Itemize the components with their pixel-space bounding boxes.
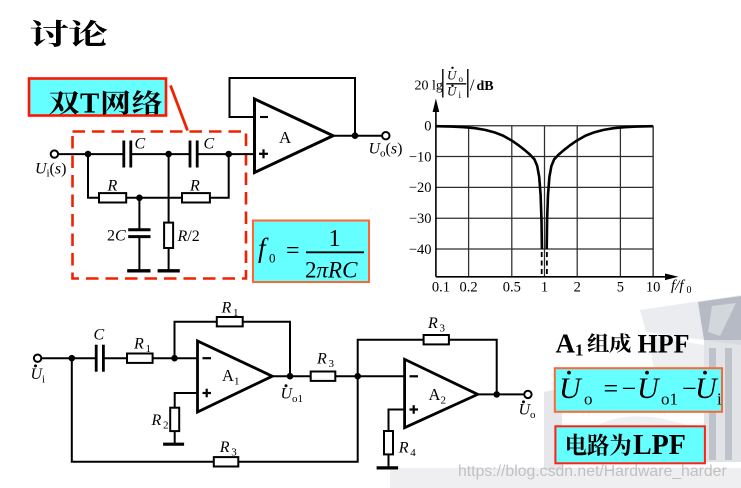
svg-text:0: 0 [269,251,276,266]
pin plus A2 [410,405,419,414]
op-amp A [255,99,334,173]
wire R2 to ground [174,431,176,443]
label Uo [519,400,537,421]
svg-text:o: o [530,409,536,421]
wire output A2 [478,393,525,395]
svg-text:R: R [133,336,144,353]
axis title 20lg|Uo/Ui|/dB [415,67,494,100]
svg-text:T: T [80,87,99,119]
node output A1 [287,373,294,380]
svg-text:R: R [398,440,409,457]
wire input [58,153,88,155]
svg-text:0.1: 0.1 [432,280,450,296]
svg-text:R: R [316,351,327,368]
resistor R2 [170,408,179,431]
svg-text:−10: −10 [409,149,432,165]
svg-text:(s): (s) [386,141,403,158]
wire junction down to 2C [138,198,140,230]
ground (R/2) [158,269,180,272]
bode grid [436,126,653,277]
node inverting input A1 [171,355,178,362]
svg-text:3: 3 [329,358,335,370]
label box LPF [555,426,705,463]
node junction A2 [354,373,361,380]
svg-text:2: 2 [441,395,447,407]
wire feedback A2 [358,340,424,377]
label Ui [31,364,46,385]
svg-text:R: R [221,300,232,317]
wire 2C to ground [138,237,140,270]
wire center down to R/2 [168,154,170,223]
terminal Uo(s) [382,132,389,139]
formula box f0 [253,221,369,283]
resistor R1 feedback [217,317,243,326]
svg-text:1: 1 [541,280,548,296]
wire mid rail [126,197,182,199]
resistor R (left) [99,193,126,202]
svg-text:−40: −40 [409,242,432,258]
node mid top [165,151,172,158]
capacitor C [96,345,103,372]
terminal Ui [34,355,41,362]
y tick labels [409,119,432,258]
svg-text:o1: o1 [661,390,678,409]
svg-text:1: 1 [234,376,240,388]
svg-text:U: U [695,372,719,405]
label R2 [151,412,169,432]
label A1 [222,366,240,388]
wire output [333,135,382,137]
wire top rail left [88,153,123,155]
svg-text:https://blog.csdn.net/Hardware: https://blog.csdn.net/Hardware_harder [458,463,727,480]
resistor R3 [311,372,336,381]
wire R/2 to ground [168,248,170,270]
svg-text:0: 0 [424,119,431,135]
title 讨论 [31,20,107,47]
svg-text:LPF: LPF [633,430,686,461]
svg-text:R: R [189,178,200,195]
wire plus input A1 [175,393,198,408]
svg-text:U: U [559,372,583,405]
node mid rail [136,195,143,202]
notch dashed asymptotes [542,252,547,275]
svg-text:R: R [427,315,438,332]
heading A1 HPF [556,329,690,360]
wire feedback A1 [175,322,217,359]
label Uo1 [281,384,304,405]
pin plus [259,149,268,158]
capacitor C (first) [124,141,131,168]
x axis [436,274,679,281]
svg-text:A: A [222,366,234,385]
wire left branch down [88,154,99,198]
pin plus A1 [203,389,212,398]
svg-text:−30: −30 [409,211,432,227]
svg-text:2C: 2C [107,228,126,245]
svg-text:0.2: 0.2 [460,280,478,296]
pin minus [260,116,268,118]
svg-text:5: 5 [617,280,624,296]
svg-text:R: R [107,178,118,195]
wire right branch up [210,154,229,198]
svg-text:1: 1 [233,307,239,319]
svg-text:A: A [279,128,292,147]
node input [69,355,76,362]
formula box Uo [555,368,722,412]
svg-text:U: U [637,372,661,405]
label R3 [316,351,335,371]
svg-text:C: C [135,136,146,153]
label f/f0 [671,278,692,296]
wire R4 to ground [388,454,390,467]
label R3 [427,315,446,335]
wire top rail mid [131,153,190,155]
pointer line [171,86,188,131]
node output A2 [493,391,500,398]
op-amp A2 [405,359,478,427]
svg-text:o1: o1 [292,393,303,405]
y axis [433,99,440,277]
svg-text:10: 10 [646,280,661,296]
wire bottom to junction [238,376,357,462]
svg-text:2: 2 [574,280,581,296]
wire feedback to output [243,322,290,377]
terminal Ui(s) [51,150,58,157]
svg-text:3: 3 [440,323,446,335]
svg-text:HPF: HPF [638,330,690,359]
label Ui(s) [35,161,66,180]
x tick labels [432,280,661,296]
resistor R1 [127,354,153,363]
svg-text:o: o [459,74,464,84]
svg-text:R: R [151,412,162,429]
svg-text:A: A [556,329,576,359]
node output [352,132,359,139]
wire feedback to output A2 [449,340,497,395]
wire plus input A2 [389,410,405,432]
wire input [41,357,96,359]
label R1 [133,336,151,356]
resistor R (right) [182,193,210,202]
pin minus A1 [203,357,212,359]
svg-text:dB: dB [477,79,494,94]
pin minus A2 [410,375,419,377]
resistor R3 feedback [424,335,449,344]
svg-text:2: 2 [163,420,169,432]
label R4 [398,440,417,460]
label A2 [429,385,447,407]
svg-text:0.5: 0.5 [503,280,521,296]
resistor R/2 [164,223,173,248]
ground (R2) [163,443,184,446]
label Uo(s) [369,141,403,160]
svg-text:C: C [204,136,215,153]
svg-text:R/2: R/2 [177,228,200,245]
svg-text:=: = [604,374,619,403]
op-amp A1 [198,341,273,412]
svg-text:=: = [286,238,300,264]
svg-text:−20: −20 [409,180,432,196]
resistor R3 bottom [214,457,239,466]
capacitor 2C [128,230,150,237]
svg-text:A: A [429,385,441,404]
svg-text:1: 1 [575,341,584,360]
label R3 [219,439,238,459]
wire R1 to A1 [153,357,198,359]
resistor R4 [384,431,393,454]
terminal Uo [524,391,531,398]
svg-text:U: U [447,68,458,83]
svg-text:(s): (s) [50,161,67,178]
svg-text:i: i [717,390,722,409]
response curve [436,126,542,249]
svg-text:i: i [42,374,45,386]
ground (R4) [377,466,399,469]
wire C to R1 [103,357,127,359]
svg-text:o: o [584,390,593,409]
label box 双T网络 [29,79,166,120]
wire top rail right [197,153,254,155]
svg-text:20 lg: 20 lg [415,79,443,94]
svg-text:3: 3 [231,447,237,459]
label R1 [221,300,239,320]
wire R3 to A2 [335,375,404,377]
svg-text:/: / [470,76,475,95]
node right top [225,151,232,158]
node input [85,151,92,158]
ground (2C) [127,269,150,272]
twin-T dashed outline [73,132,247,279]
svg-text:1: 1 [146,343,152,355]
svg-text:2πRC: 2πRC [305,258,358,283]
svg-text:0: 0 [687,285,692,296]
svg-text:f/f: f/f [671,278,685,294]
capacitor C (second) [190,141,197,168]
wire feedback [230,78,356,136]
svg-text:C: C [94,327,105,344]
wire bottom branch [72,358,214,462]
svg-text:R: R [219,439,230,456]
wire output A1 [272,375,310,377]
svg-text:−: − [622,374,637,403]
svg-text:1: 1 [329,226,341,252]
svg-text:4: 4 [410,447,416,459]
